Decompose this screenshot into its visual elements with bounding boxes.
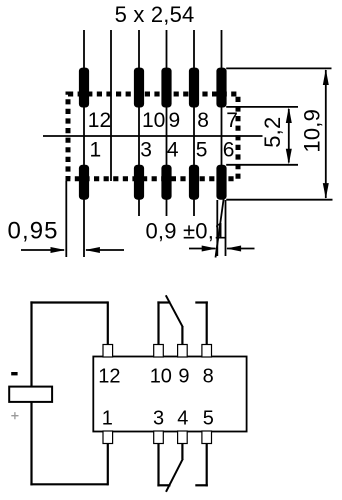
extension line housing left edge <box>65 181 67 257</box>
svg-text:4: 4 <box>167 138 179 161</box>
svg-text:9: 9 <box>169 109 181 132</box>
dimension 0,9 right arrowhead <box>226 246 241 252</box>
dimension 0,95 right arrowhead <box>85 247 100 253</box>
svg-text:8: 8 <box>203 365 214 387</box>
extension line pin2 column (no pad) <box>110 30 112 181</box>
relay body <box>93 357 246 432</box>
switch blade bottom (pin4) <box>166 459 183 492</box>
svg-text:3: 3 <box>140 138 152 161</box>
wire pin8 contact terminal <box>195 301 208 303</box>
pad 6 <box>216 165 226 200</box>
pin stub 1 <box>103 431 113 444</box>
pad 5 <box>189 165 199 200</box>
svg-text:0,9 ±0,1: 0,9 ±0,1 <box>146 219 227 244</box>
battery minus label <box>11 372 17 375</box>
wire pin3 down <box>157 444 159 487</box>
svg-text:10: 10 <box>142 109 165 132</box>
dimension 10,9 arrowhead up <box>323 69 329 85</box>
pin stub 12 <box>103 345 113 358</box>
pad 9 <box>161 68 171 108</box>
extension line pin6 column <box>221 30 223 200</box>
svg-text:1: 1 <box>102 407 113 429</box>
extension line top of bottom pads (right) <box>226 164 298 166</box>
wire top rail <box>30 301 107 303</box>
battery body <box>9 387 52 402</box>
dimension 5,2 arrowhead down <box>286 149 292 165</box>
svg-text:3: 3 <box>153 407 164 429</box>
svg-text:7: 7 <box>226 109 238 132</box>
extension line pad6 left edge <box>216 200 218 256</box>
wire bottom rail <box>30 483 107 485</box>
wire left down to battery <box>30 301 32 387</box>
svg-text:4: 4 <box>177 407 188 429</box>
wire bottom rail to pin1 <box>107 444 109 486</box>
pad 8 <box>189 68 199 108</box>
svg-text:12: 12 <box>98 365 120 387</box>
wire pin5 down <box>206 444 208 487</box>
pad 4 <box>161 165 171 200</box>
svg-text:10: 10 <box>150 365 172 387</box>
pin stub 3 <box>154 431 164 444</box>
switch blade top (pin9) <box>166 295 183 327</box>
extension line pin4 column <box>166 30 168 216</box>
wire pin5 contact terminal <box>195 484 208 486</box>
wire pin8 up <box>206 301 208 344</box>
dimension 0,95 right arrow tail <box>86 249 124 251</box>
wire pin4 down <box>181 444 183 460</box>
pad 3 <box>134 165 144 200</box>
dimension 0,9 right arrow tail <box>227 248 255 250</box>
svg-text:8: 8 <box>197 109 209 132</box>
dimension 10,9 arrowhead down <box>323 183 329 199</box>
svg-text:10,9: 10,9 <box>299 109 324 153</box>
battery plus label <box>11 412 18 419</box>
pin stub 5 <box>202 431 212 444</box>
extension line bottom of top pads (right) <box>226 106 298 108</box>
extension line pin3 column <box>138 30 140 216</box>
dimension 0,95 left arrowhead <box>51 247 66 253</box>
svg-text:0,95: 0,95 <box>8 218 59 245</box>
pad 1 <box>79 165 89 200</box>
svg-text:5 x 2,54: 5 x 2,54 <box>115 2 195 27</box>
wire pin3 contact terminal <box>157 484 170 486</box>
extension line top of pads (right) <box>226 67 331 69</box>
housing outline dashed rectangle <box>68 94 238 179</box>
dimension 0,95 left arrow tail <box>21 249 64 251</box>
wire pin12 to top rail <box>107 301 109 344</box>
svg-text:5: 5 <box>203 407 214 429</box>
wire pin10 up <box>157 301 159 344</box>
leader diagonal through pad6 extension <box>216 199 224 258</box>
extension line pad6 right edge <box>225 200 227 256</box>
svg-text:5,2: 5,2 <box>260 117 285 148</box>
pad 7 <box>216 68 226 108</box>
extension line bottom of pads (right) <box>226 199 332 201</box>
extension line pin1 column <box>83 30 85 257</box>
pin stub 9 <box>178 345 188 358</box>
svg-text:6: 6 <box>223 138 235 161</box>
wire battery down <box>30 402 32 486</box>
svg-text:1: 1 <box>90 138 102 161</box>
svg-text:5: 5 <box>196 138 208 161</box>
dimension 10,9 arrow line <box>325 70 327 198</box>
dimension 5,2 arrowhead up <box>286 107 292 123</box>
extension line pin5 column <box>193 30 195 216</box>
pad 10 <box>134 68 144 108</box>
pin stub 4 <box>178 431 188 444</box>
svg-text:9: 9 <box>178 365 189 387</box>
pin stub 10 <box>154 345 164 358</box>
wire pin10 contact terminal <box>157 301 170 303</box>
centerline <box>43 135 263 137</box>
svg-text:12: 12 <box>88 109 111 132</box>
pin stub 8 <box>202 345 212 358</box>
dimension 0,9 left arrowhead <box>202 246 217 252</box>
wire pin9 up <box>181 327 183 345</box>
dimension 0,9 left arrow tail <box>189 248 216 250</box>
dimension 5,2 arrow line <box>288 109 290 163</box>
pad 12 <box>79 68 89 108</box>
